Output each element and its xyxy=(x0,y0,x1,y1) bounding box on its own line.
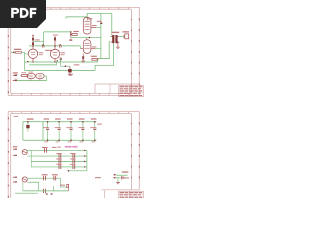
wire feedback corner L2 xyxy=(95,43,114,70)
capacitor C3 below junction xyxy=(69,39,72,40)
capacitor filter inline xyxy=(73,154,75,158)
node junction coupling xyxy=(70,31,72,37)
wire green bracket xyxy=(66,13,87,18)
capacitor C14 filter xyxy=(78,118,84,142)
resistor R6 coupling xyxy=(72,31,79,36)
resistor R4 plate A chain xyxy=(32,35,40,47)
capacitor C12 filter xyxy=(55,118,61,142)
wire filter row 3 xyxy=(31,161,87,163)
wire heater row 2 xyxy=(27,182,38,191)
PDF badge xyxy=(0,0,46,28)
wire filter left link xyxy=(30,150,32,167)
capacitor heater inline xyxy=(54,176,56,180)
connector X2 mains pins xyxy=(13,146,18,156)
capacitor heater inline xyxy=(44,189,46,193)
wire supply rail xyxy=(29,32,81,46)
capacitor C13 filter xyxy=(66,118,72,142)
label Tube-Town pink xyxy=(65,146,78,148)
tube V1 output pentode xyxy=(83,17,91,34)
capacitor C15 filter xyxy=(90,118,96,142)
wire cathode rail xyxy=(25,60,98,70)
wire heater bottom xyxy=(15,182,68,193)
fuse F2 xyxy=(22,177,27,182)
wire cap bank top rail xyxy=(23,121,97,123)
capacitor filter inline xyxy=(59,154,61,158)
capacitor C11 filter xyxy=(43,118,49,142)
capacitor filter inline xyxy=(59,159,61,163)
label near V1 xyxy=(88,18,103,24)
label misc sheet1 xyxy=(45,50,79,66)
label sheet2 corner xyxy=(14,116,19,117)
tube V3A input triode xyxy=(27,72,35,81)
resistor R7 screen pin xyxy=(91,25,101,27)
capacitor filter inline xyxy=(45,148,47,152)
wire cap bank left box xyxy=(23,122,43,141)
wire V2 grid feed xyxy=(71,37,101,39)
capacitor filter inline xyxy=(73,159,75,163)
wire heater row 1 xyxy=(27,178,67,187)
sheet 1 frame border xyxy=(8,7,140,95)
ground cathode xyxy=(68,74,73,75)
connector X4 pins xyxy=(13,177,17,183)
wire under input tubes xyxy=(17,76,47,81)
connector X5 output cluster xyxy=(114,174,116,178)
wire filter row 4 xyxy=(31,166,87,168)
sheet 1 title block xyxy=(95,84,143,97)
wire filter row 1 xyxy=(27,149,87,151)
resistor R20 bleeder xyxy=(60,184,69,191)
resistor R5 plate B xyxy=(53,35,58,47)
resistor R9 output cathode xyxy=(81,53,85,62)
resistor R10 cathode B xyxy=(60,58,62,61)
wire feedback corner L1 xyxy=(98,41,109,62)
tube V2A triode xyxy=(28,45,37,62)
wire filter right bus xyxy=(68,150,87,172)
ground TR1 secondary xyxy=(116,42,119,48)
tube V3B input triode xyxy=(35,73,44,80)
sheet 2 title block xyxy=(101,190,143,198)
wire filter row 2 xyxy=(31,155,87,157)
label tube names xyxy=(39,52,65,55)
capacitor C2 left pair xyxy=(42,44,44,48)
wire grid A xyxy=(22,52,29,70)
capacitor filter inline xyxy=(59,165,61,169)
wire top rail to transformer xyxy=(87,13,112,58)
label output cluster xyxy=(122,171,129,178)
ground output cluster xyxy=(116,183,120,184)
fuse F1 xyxy=(22,150,31,157)
wire input from border xyxy=(11,52,15,54)
pin V2 right xyxy=(91,46,101,48)
resistor R1 input xyxy=(14,49,22,54)
connector X1 output xyxy=(122,31,129,39)
wire cap bank bottom rail xyxy=(23,139,97,141)
capacitor filter inline xyxy=(73,165,75,169)
resistor R8 feedback xyxy=(91,56,98,61)
transformer TR1 xyxy=(111,32,120,44)
label filter caps xyxy=(42,147,76,165)
connector X3 input pins xyxy=(13,72,18,81)
tube V2B triode xyxy=(50,45,59,62)
label last cap right xyxy=(97,124,101,125)
capacitor C5 right pair xyxy=(59,44,61,48)
capacitor C10 electrolytic xyxy=(26,118,33,131)
wire TR1 to X1 xyxy=(119,35,124,37)
capacitor C4 cathode bypass xyxy=(61,58,72,74)
wire rail drop to V2 xyxy=(81,46,84,49)
capacitor C30 output xyxy=(121,176,126,179)
sheet 2 frame border xyxy=(8,112,140,198)
resistor R2 grid stopper xyxy=(20,72,29,76)
capacitor heater inline xyxy=(44,176,46,180)
wire output cluster xyxy=(116,175,128,182)
label heater caps xyxy=(42,174,101,178)
wire plate link xyxy=(33,40,44,42)
capacitor heater pair marks xyxy=(46,193,53,194)
tube V2 output pentode xyxy=(83,38,91,54)
